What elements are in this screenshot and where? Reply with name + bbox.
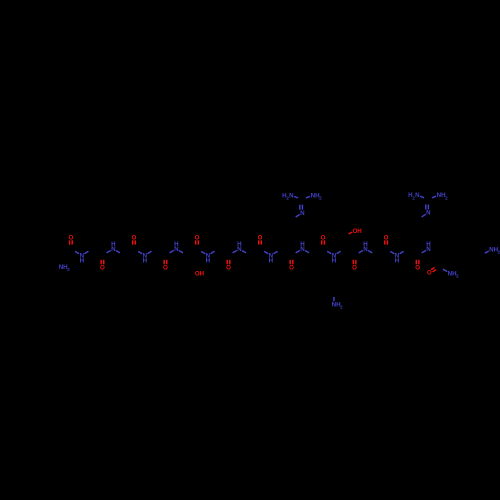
svg-text:O: O <box>132 234 137 241</box>
svg-text:H: H <box>332 258 337 265</box>
svg-text:H: H <box>395 258 400 265</box>
svg-text:O: O <box>258 234 263 241</box>
svg-text:H: H <box>363 241 368 248</box>
svg-text:N: N <box>300 210 305 217</box>
svg-text:O: O <box>321 234 326 241</box>
svg-text:N: N <box>289 192 294 199</box>
svg-text:O: O <box>226 265 231 272</box>
svg-text:O: O <box>68 234 73 241</box>
svg-text:H: H <box>111 241 116 248</box>
svg-text:H: H <box>80 258 85 265</box>
svg-text:H: H <box>269 258 274 265</box>
svg-text:O: O <box>352 265 357 272</box>
svg-text:N: N <box>426 210 431 217</box>
svg-text:H: H <box>300 241 305 248</box>
svg-text:H: H <box>174 241 179 248</box>
svg-text:O: O <box>415 265 420 272</box>
svg-text:H: H <box>143 258 148 265</box>
svg-text:H: H <box>357 228 362 235</box>
svg-text:H: H <box>206 258 211 265</box>
svg-text:H: H <box>200 270 205 277</box>
svg-text:H: H <box>237 241 242 248</box>
svg-text:H: H <box>426 241 431 248</box>
svg-text:O: O <box>100 265 105 272</box>
svg-text:O: O <box>384 234 389 241</box>
svg-text:N: N <box>415 192 420 199</box>
svg-text:O: O <box>289 265 294 272</box>
svg-text:O: O <box>195 234 200 241</box>
svg-text:O: O <box>427 270 432 277</box>
svg-text:O: O <box>163 265 168 272</box>
